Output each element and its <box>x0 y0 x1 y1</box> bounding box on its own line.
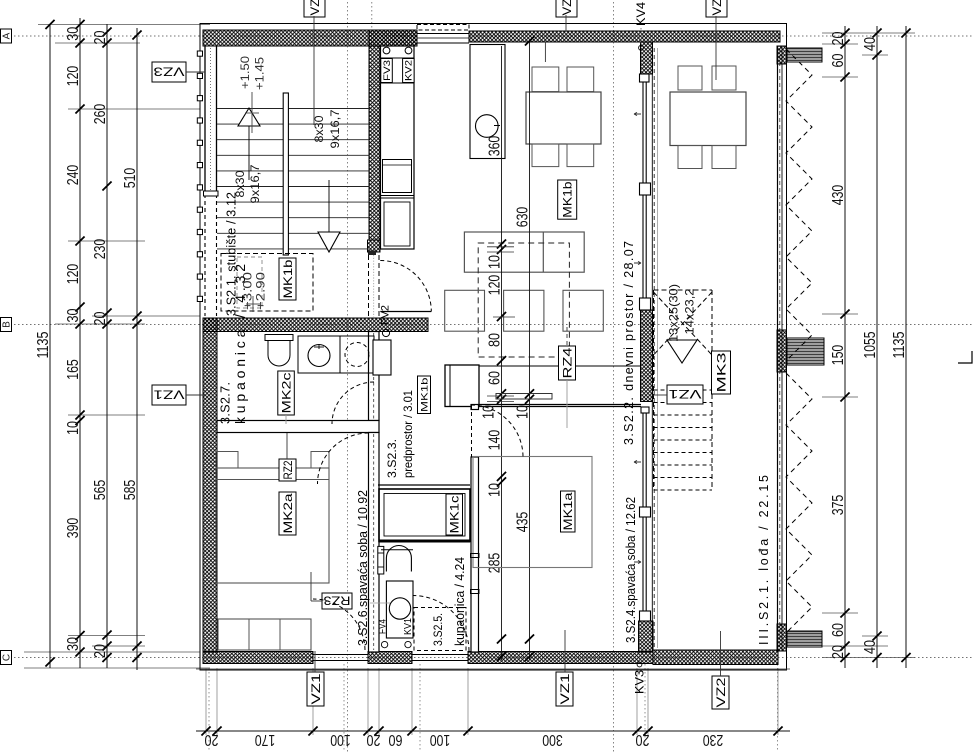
label MK1b stairwell <box>279 258 296 300</box>
coffee table <box>504 290 544 331</box>
roof zigzag dashed lower <box>786 373 812 633</box>
building outer contour line <box>200 24 787 671</box>
svg-text:RZ4: RZ4 <box>560 347 574 378</box>
left wall lower stairwell dashed <box>204 194 206 316</box>
svg-text:10: 10 <box>487 255 504 269</box>
toilet bathroom2 arch <box>386 546 411 572</box>
loggia east wall lines <box>777 46 779 651</box>
bottom wall tick marks for dim lines <box>497 652 506 661</box>
kitchen island <box>470 45 505 159</box>
label VZ2 bottom loggia <box>712 676 729 709</box>
loggia stair treads dashed <box>654 389 713 391</box>
bottom wall segment 3 hatched <box>468 652 653 664</box>
east wall window living glass pane 1 <box>642 82 644 183</box>
svg-text:3.S2.7.: 3.S2.7. <box>219 382 233 424</box>
grid line A (dotted) <box>14 35 972 37</box>
toilet bathroom1 <box>265 335 293 341</box>
east wall window bedroom glass pane 1 <box>642 413 644 507</box>
loggia east wall hatch pieces <box>777 46 787 64</box>
label VZ1 bottom middle <box>556 672 573 706</box>
east wall window bedroom mid jamb <box>640 507 651 517</box>
dining chairs top <box>532 67 559 92</box>
svg-text:kupaonica / 4.24: kupaonica / 4.24 <box>453 557 467 646</box>
stair up arrow <box>238 108 260 126</box>
door FV2 leaf <box>373 340 391 375</box>
door FV2 arc dashed <box>380 261 431 312</box>
svg-text:KV3: KV3 <box>633 670 647 694</box>
label KV2 kitchen <box>403 59 415 83</box>
svg-text:360: 360 <box>487 136 504 157</box>
svg-text:MK1a: MK1a <box>561 492 575 530</box>
svg-text:20: 20 <box>92 311 109 325</box>
grid line C (dotted) <box>14 657 972 659</box>
left dim chain overall 1135 line <box>49 24 51 668</box>
svg-text:510: 510 <box>122 168 139 189</box>
bottom wall door VZ1 opening sill <box>313 654 368 656</box>
right dim chain 3 overall <box>905 26 907 668</box>
svg-text:MK1b: MK1b <box>561 181 575 218</box>
svg-text:120: 120 <box>65 66 82 87</box>
divider wall end block hatched <box>368 240 381 252</box>
svg-text:240: 240 <box>65 165 82 186</box>
roof zigzag dashed upper <box>786 49 812 361</box>
svg-text:VZ1: VZ1 <box>668 387 701 401</box>
east wall hatch middle segment <box>641 310 653 402</box>
label MK2a <box>279 492 296 535</box>
loggia pillar bar top <box>787 48 822 62</box>
bedroom3 door leaf dashed <box>471 405 473 457</box>
label FV3 <box>381 59 393 83</box>
svg-text:60: 60 <box>830 623 847 637</box>
svg-text:VZ1: VZ1 <box>153 388 184 402</box>
svg-text:MK1b: MK1b <box>419 378 430 413</box>
label MK1a <box>561 491 576 532</box>
window slide arrow bedroom 2 <box>634 560 641 563</box>
svg-text:MK1c: MK1c <box>448 496 462 534</box>
label RZ3 <box>322 593 352 609</box>
armchair right <box>563 290 603 331</box>
top wall west segment hatched <box>203 30 417 46</box>
loggia dining chairs bottom <box>678 146 702 169</box>
svg-text:30: 30 <box>65 308 82 322</box>
kitchen hob circles <box>383 47 390 54</box>
svg-text:3.S2.5.: 3.S2.5. <box>431 613 445 646</box>
svg-text:60: 60 <box>388 731 402 748</box>
svg-text:285: 285 <box>487 553 504 574</box>
svg-text:300: 300 <box>542 731 563 748</box>
svg-text:170: 170 <box>255 731 276 748</box>
svg-text:100: 100 <box>330 731 351 748</box>
svg-text:375: 375 <box>830 495 847 516</box>
interior dim line x=529 <box>529 41 531 660</box>
nightstand right <box>311 452 329 469</box>
loggia stair arrow <box>667 340 697 363</box>
label VZ1 left <box>152 385 186 405</box>
svg-text:20: 20 <box>92 644 109 658</box>
svg-text:predprostor / 3.01: predprostor / 3.01 <box>401 390 415 478</box>
kitchen fridge <box>383 160 412 193</box>
label MK3 <box>712 351 731 394</box>
stair-kitchen divider wall hatched <box>369 46 380 240</box>
svg-text:RZ2: RZ2 <box>281 460 295 479</box>
bathroom1 door arc dashed <box>332 382 374 424</box>
svg-text:VZ2: VZ2 <box>714 677 728 707</box>
east wall hatch bottom segment <box>639 621 654 652</box>
top wall window VZ2 opening <box>417 30 469 46</box>
right dim extension lines <box>822 32 915 34</box>
svg-text:40: 40 <box>862 640 879 654</box>
grid axis vertical dotted x=371 above plan <box>371 2 373 46</box>
svg-text:MK2c: MK2c <box>279 373 293 414</box>
svg-text:20: 20 <box>830 31 847 45</box>
svg-text:165: 165 <box>65 359 82 380</box>
door FV2 circle <box>382 329 389 336</box>
living-bedroom divider line <box>479 365 641 367</box>
svg-text:230: 230 <box>92 239 109 260</box>
loggia pillar bar bottom <box>787 631 822 647</box>
grid axis vertical dotted x=347 <box>347 2 349 752</box>
svg-text:140: 140 <box>487 430 504 451</box>
svg-text:3.S2.2. dnevni prostor / 28.07: 3.S2.2. dnevni prostor / 28.07 <box>622 241 636 445</box>
svg-text:A: A <box>2 32 13 39</box>
east wall window bedroom jamb bottom <box>640 611 651 621</box>
closet-bathroom2 wall <box>379 540 470 543</box>
svg-text:+1.50: +1.50 <box>240 56 252 89</box>
svg-text:230: 230 <box>703 731 724 748</box>
svg-text:C: C <box>2 654 13 661</box>
bedroom2 door arc dashed <box>318 433 369 484</box>
svg-text:1055: 1055 <box>862 331 879 358</box>
loggia dining table <box>670 92 746 146</box>
left dim chain 3 line <box>106 24 108 668</box>
stairwell bottom wall hatched <box>203 318 428 332</box>
svg-text:9x16,7: 9x16,7 <box>248 164 262 203</box>
left dim chain 4 line <box>136 28 138 670</box>
bed MK1a <box>473 457 592 568</box>
stair void dashed rect <box>221 254 313 312</box>
svg-text:13x25(30): 13x25(30) <box>667 284 681 342</box>
svg-text:20: 20 <box>830 645 847 659</box>
svg-text:20: 20 <box>204 731 218 748</box>
right dim chain 2 <box>876 26 878 668</box>
vanity bathroom1 <box>298 336 340 373</box>
wardrobe bedroom2 <box>218 619 311 650</box>
svg-text:14x23,2: 14x23,2 <box>683 288 697 334</box>
bedroom3 west wall <box>471 457 479 652</box>
label VZ2 top middle <box>556 0 577 17</box>
svg-text:150: 150 <box>830 345 847 366</box>
svg-text:VZ2: VZ2 <box>560 0 574 16</box>
loggia stair dashed outline <box>653 290 655 490</box>
north corner mark <box>958 351 972 363</box>
east wall window bedroom jamb top <box>641 407 649 413</box>
label MK1b predprostor <box>418 376 431 414</box>
top wall middle segment hatched <box>369 30 417 46</box>
label VZ1 loggia <box>667 385 703 404</box>
kitchen island sink <box>476 115 499 138</box>
label VZ3 top <box>304 0 325 17</box>
bedroom3 door arc dashed <box>471 405 523 457</box>
label RZ2 <box>279 459 296 481</box>
left dim extension lines <box>38 23 210 25</box>
label MK1c <box>446 494 463 535</box>
bottom dim chain line <box>196 730 790 732</box>
east wall window bedroom glass pane 2 <box>642 517 644 611</box>
svg-text:VZ3: VZ3 <box>153 65 184 79</box>
svg-text:430: 430 <box>830 185 847 206</box>
loggia floor edge line <box>657 48 659 648</box>
bathroom2 door arc dashed <box>414 596 470 652</box>
svg-text:1135: 1135 <box>891 331 908 358</box>
svg-text:630: 630 <box>515 207 532 228</box>
armchair left <box>445 290 485 331</box>
east wall window living jamb top <box>640 74 650 82</box>
top wall east segment hatched <box>469 31 780 42</box>
label MK1b living <box>558 180 577 219</box>
left wall upper (stairwell) double line <box>204 46 206 194</box>
window slide arrow living 2 <box>634 261 641 264</box>
closet MK1c <box>379 489 470 542</box>
svg-text:585: 585 <box>122 480 139 501</box>
svg-text:KV2: KV2 <box>404 60 414 81</box>
washer counter bathroom2 <box>386 581 413 638</box>
label VZ1 bottom left <box>307 672 324 706</box>
svg-text:MK1b: MK1b <box>281 259 295 298</box>
stair stringer <box>283 93 288 255</box>
svg-text:FV2: FV2 <box>380 305 392 325</box>
grid label C <box>1 651 12 665</box>
sideboard shelf <box>496 394 552 400</box>
svg-text:MK3: MK3 <box>714 352 728 393</box>
svg-text:3.S2.3.: 3.S2.3. <box>385 439 399 478</box>
bathroom1 bottom wall <box>217 421 379 433</box>
bottom wall segment 2 hatched <box>368 652 412 664</box>
sofa <box>464 232 584 272</box>
svg-text:VZ1: VZ1 <box>558 673 572 704</box>
label RZ4 <box>559 346 576 380</box>
svg-text:FV3: FV3 <box>382 60 392 81</box>
east wall outer face line <box>651 42 653 652</box>
svg-text:10: 10 <box>515 405 532 419</box>
label VZ3 left <box>152 62 186 82</box>
wall stub below pier <box>471 405 479 410</box>
nightstand left <box>216 452 238 469</box>
living-bedroom divider pier <box>445 365 479 407</box>
svg-text:10: 10 <box>481 405 498 419</box>
svg-text:KV4: KV4 <box>634 2 648 26</box>
east wall window living jamb bottom <box>640 298 651 310</box>
bed MK2a <box>216 468 329 583</box>
bottom wall door opening 2 sill <box>412 654 468 656</box>
bottom dim extension lines <box>205 668 207 735</box>
svg-text:435: 435 <box>515 512 532 533</box>
svg-text:FV4: FV4 <box>377 619 389 634</box>
svg-text:80: 80 <box>487 333 504 347</box>
svg-text:20: 20 <box>92 30 109 44</box>
bathroom2 floor circles <box>381 641 387 647</box>
stair down arrow <box>318 232 340 252</box>
stair lower landing level +3.00 +2.90 <box>237 257 262 308</box>
bedroom3 west wall jambs <box>471 554 480 558</box>
shower dashed rect bathroom2 <box>414 608 466 651</box>
kitchen counter <box>381 46 415 249</box>
grid axis vertical dotted x=613 <box>613 2 615 752</box>
label MK2c <box>278 371 295 415</box>
svg-text:120: 120 <box>487 275 504 296</box>
svg-text:VZ1: VZ1 <box>309 673 323 704</box>
svg-text:kupaonica / 4.32: kupaonica / 4.32 <box>232 264 248 424</box>
left dim chain 2 line <box>79 18 81 668</box>
svg-text:+1.45: +1.45 <box>255 57 267 90</box>
svg-text:30: 30 <box>65 27 82 41</box>
east wall window living glass pane 2 <box>642 195 644 298</box>
door FV2 leaf line <box>380 311 431 313</box>
svg-text:20: 20 <box>366 731 380 748</box>
kitchen unit lines <box>381 195 415 197</box>
dining chairs bottom <box>532 144 559 167</box>
loggia dining chairs top <box>678 66 702 90</box>
svg-text:100: 100 <box>430 731 451 748</box>
loggia overhang dashed line <box>653 48 655 648</box>
spine wall lower (bedroom2/bath2) <box>369 433 380 653</box>
svg-text:20: 20 <box>635 731 649 748</box>
svg-text:VZ2: VZ2 <box>710 0 724 16</box>
carpet dashed <box>478 243 569 357</box>
svg-text:10: 10 <box>487 483 504 497</box>
right dim chain 1 <box>844 26 846 668</box>
svg-text:565: 565 <box>92 480 109 501</box>
svg-text:B: B <box>2 321 13 328</box>
svg-text:3.S2.4.spavaća soba / 12.62: 3.S2.4.spavaća soba / 12.62 <box>624 497 638 643</box>
left wall insulation squares <box>197 51 202 56</box>
svg-text:MK2a: MK2a <box>281 493 295 533</box>
svg-text:260: 260 <box>92 104 109 125</box>
east wall window living mid jamb <box>640 183 651 195</box>
svg-text:40: 40 <box>862 37 879 51</box>
svg-text:60: 60 <box>830 53 847 67</box>
svg-text:KV1: KV1 <box>402 618 414 635</box>
label VZ2 top loggia <box>706 0 727 17</box>
window slide arrow bedroom 1 <box>634 460 641 463</box>
svg-text:390: 390 <box>65 518 82 539</box>
dining table living room <box>526 92 601 144</box>
svg-text:VZ2: VZ2 <box>308 0 322 16</box>
loggia stair diagonals dashed <box>654 292 713 355</box>
washing machine bathroom1 <box>340 336 374 373</box>
loggia bottom wall hatched <box>653 650 778 665</box>
svg-text:9x16,7: 9x16,7 <box>328 109 342 148</box>
door FV2 opening dashed jambs <box>368 255 370 317</box>
loggia pillar bar middle <box>787 338 824 365</box>
window slide arrow living 1 <box>634 112 641 115</box>
svg-text:120: 120 <box>65 264 82 285</box>
bathroom1 east wall / spine wall upper <box>369 332 380 421</box>
bottom wall segment 1 hatched <box>203 652 313 664</box>
svg-text:10: 10 <box>65 421 82 435</box>
interior dim line x=501 <box>501 46 503 660</box>
east wall hatch top segment <box>641 42 653 74</box>
left wall lower hatched <box>203 318 217 652</box>
shelf strip bathroom2 <box>378 546 384 574</box>
grid label A <box>1 29 12 43</box>
bottom door VZ1 arc dashed <box>313 599 365 650</box>
stair treads <box>217 108 369 110</box>
closet top wall line <box>378 484 470 486</box>
svg-text:3.S2.6.spavaća soba / 10.92: 3.S2.6.spavaća soba / 10.92 <box>356 490 370 646</box>
svg-text:60: 60 <box>487 371 504 385</box>
bottom dotted extension lines <box>208 668 210 752</box>
svg-text:1135: 1135 <box>35 331 52 358</box>
grid line B (dotted) <box>14 324 972 326</box>
grid label B <box>1 318 12 332</box>
svg-text:30: 30 <box>65 637 82 651</box>
